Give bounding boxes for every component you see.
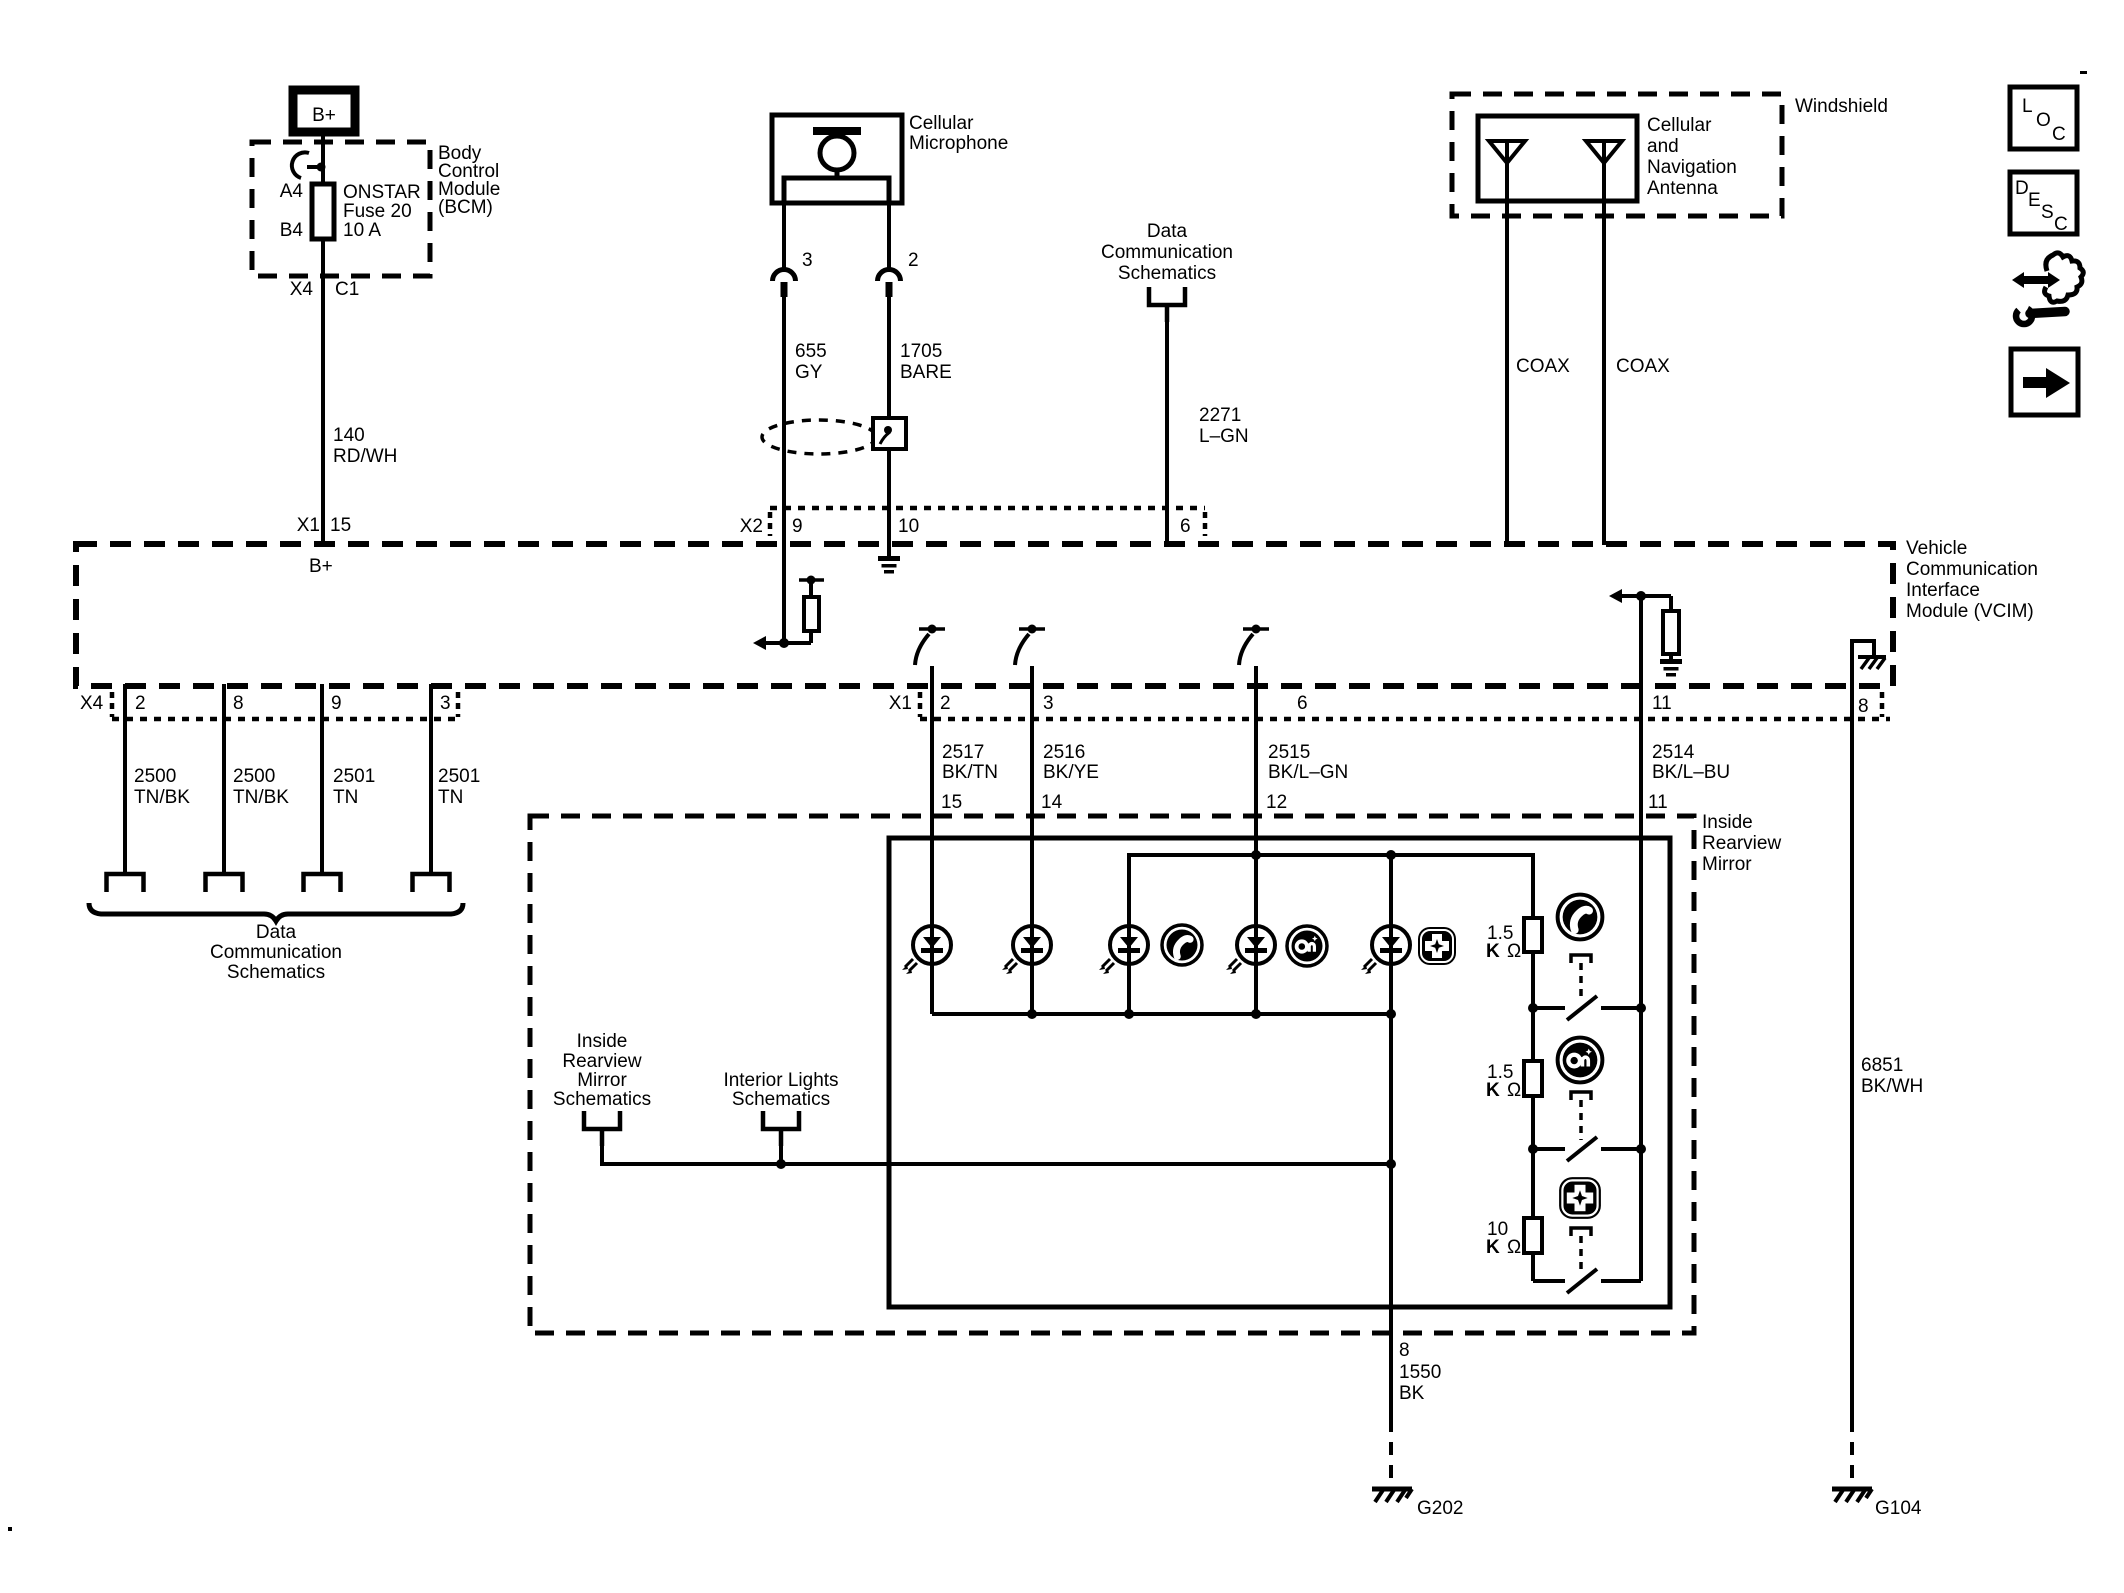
svg-text:Cellular: Cellular [1647,115,1712,136]
mirror internal solid box [889,838,1670,1307]
LED D5 emergency indicator [1361,926,1410,974]
svg-text:2517: 2517 [942,742,984,763]
svg-text:C: C [2054,214,2068,235]
bracket to data schematics [1149,287,1185,322]
wire 655 GY [782,296,786,643]
BCM label [438,143,500,218]
svg-text:D: D [2015,178,2029,199]
svg-text:S: S [2041,202,2054,223]
svg-text:K: K [1486,941,1500,962]
svg-text:655: 655 [795,341,827,362]
stray marks [2080,71,2087,74]
resistor R3 10K [1524,1218,1542,1253]
svg-text:L: L [2022,96,2033,117]
ground G104 [1832,1489,1872,1502]
svg-text:8: 8 [233,693,244,714]
svg-text:Navigation: Navigation [1647,157,1737,178]
svg-text:Interior Lights: Interior Lights [723,1070,838,1091]
fuse ONSTAR Fuse 20 10 A [280,181,421,241]
svg-text:and: and [1647,136,1679,157]
svg-text:2516: 2516 [1043,742,1085,763]
LED D2 (pin 14 circuit) [1002,926,1051,974]
wire interior lights stub [779,1146,783,1164]
wire 2271 L-GN [1165,305,1169,545]
svg-text:Ω: Ω [1507,1080,1521,1101]
svg-text:Schematics: Schematics [732,1089,830,1110]
wire COAX right [1602,141,1606,545]
svg-text:14: 14 [1041,792,1063,813]
svg-text:8: 8 [1858,696,1869,717]
node B+ battery feed box [293,90,355,132]
svg-text:GY: GY [795,362,823,383]
svg-text:Module (VCIM): Module (VCIM) [1906,601,2034,622]
junction dot cathode bus / LED D3 [1124,1009,1134,1019]
svg-text:Cellular: Cellular [909,113,974,134]
svg-text:6851: 6851 [1861,1055,1903,1076]
svg-text:Vehicle: Vehicle [1906,538,1967,559]
junction dot anode bus / LED D4 [1251,850,1261,860]
wire schematics refs to mirror ground [602,1146,1391,1164]
svg-text:COAX: COAX [1616,356,1670,377]
svg-text:L–GN: L–GN [1199,426,1249,447]
svg-text:140: 140 [333,425,365,446]
svg-text:COAX: COAX [1516,356,1570,377]
svg-text:2271: 2271 [1199,405,1241,426]
svg-text:Schematics: Schematics [227,962,325,983]
wire top rail (anode bus) [1129,855,1533,1014]
wire 2501 TN pin3 [429,684,433,874]
svg-text:K: K [1486,1080,1500,1101]
connector clip A4 inside BCM [292,152,326,178]
wire B+ to BCM [321,132,325,184]
svg-text:10: 10 [898,516,919,537]
svg-text:BK/L–BU: BK/L–BU [1652,762,1730,783]
pin 2 terminal [878,270,901,298]
wire shield to ground [887,449,891,556]
junction dot cathode bus / LED D2 [1027,1009,1037,1019]
mech link 3 [1571,1228,1591,1236]
svg-text:Inside: Inside [577,1031,628,1052]
svg-text:G104: G104 [1875,1498,1922,1519]
svg-text:Fuse 20: Fuse 20 [343,201,412,222]
VCIM internal: switch pin 3 [1015,625,1045,666]
svg-text:X2: X2 [740,516,763,537]
svg-text:BK/WH: BK/WH [1861,1076,1923,1097]
icon On (LED row) [1287,926,1327,966]
svg-text:O: O [2036,110,2051,131]
icon phone (button column) [1558,895,1603,940]
wire 2517 BK/TN [930,666,934,1014]
icon cross (button column) [1559,1177,1601,1219]
vehicle/wrench glyph [2011,253,2083,324]
mech link 2 [1571,1092,1591,1100]
svg-text:Windshield: Windshield [1795,96,1888,117]
svg-text:2: 2 [135,693,146,714]
svg-text:Communication: Communication [1101,242,1233,263]
svg-text:BARE: BARE [900,362,952,383]
svg-text:1550: 1550 [1399,1362,1441,1383]
VCIM internal: coax terminator resistor to ground [1609,589,1682,677]
junction dot cathode bus / wire 1550 [1386,1009,1396,1019]
svg-text:X1: X1 [297,515,320,536]
svg-text:12: 12 [1266,792,1287,813]
wire 2500 TN/BK pin2 [123,684,127,874]
svg-text:2: 2 [940,693,951,714]
svg-text:Inside: Inside [1702,812,1753,833]
svg-text:TN/BK: TN/BK [233,787,289,808]
svg-text:Ω: Ω [1507,941,1521,962]
antenna 2 [1586,141,1622,163]
junction dot cathode bus / LED D4 [1251,1009,1261,1019]
switch row 3 [1533,1269,1641,1293]
wire 6851 BK/WH [1850,686,1854,1419]
svg-text:3: 3 [1043,693,1054,714]
mirror dashed box [530,816,1694,1333]
svg-text:2515: 2515 [1268,742,1310,763]
VCIM internal: chassis ground for pin 8 [1852,641,1886,686]
svg-text:X4: X4 [290,279,314,300]
svg-text:C: C [2052,124,2066,145]
LOC icon box [2010,87,2077,149]
wire 2500 TN/BK pin8 [222,684,226,874]
svg-text:TN: TN [333,787,358,808]
svg-text:15: 15 [330,515,351,536]
switch row 2 [1528,1137,1646,1161]
shield drain box [873,418,906,449]
svg-text:15: 15 [941,792,962,813]
svg-text:K: K [1486,1237,1500,1258]
ground G202 [1372,1489,1412,1502]
svg-text:2514: 2514 [1652,742,1695,763]
svg-text:A4: A4 [280,181,304,202]
LED D1 (pin 15 circuit) [902,926,951,974]
svg-text:6: 6 [1297,693,1308,714]
svg-text:6: 6 [1180,516,1191,537]
windshield dashed box [1452,94,1782,216]
svg-text:Microphone: Microphone [909,133,1008,154]
icon cross (LED row) [1418,927,1456,965]
svg-text:1705: 1705 [900,341,942,362]
svg-text:Rearview: Rearview [1702,833,1781,854]
svg-text:Ω: Ω [1507,1237,1521,1258]
switch row 1 [1528,996,1646,1020]
svg-text:10 A: 10 A [343,220,381,241]
LED4 anode wire [1254,855,1258,1014]
svg-text:2: 2 [908,250,919,271]
svg-text:BK/YE: BK/YE [1043,762,1099,783]
shield ellipse [762,420,876,454]
svg-text:Interface: Interface [1906,580,1980,601]
svg-text:Mirror: Mirror [1702,854,1752,875]
Body Control Module (BCM) dashed box [252,142,430,276]
LED D3 phone indicator [1099,926,1148,974]
svg-text:B+: B+ [309,556,333,577]
wire 2514 BK/L-BU [1639,596,1643,1281]
svg-text:2501: 2501 [333,766,375,787]
svg-text:B4: B4 [280,220,304,241]
svg-text:Schematics: Schematics [553,1089,651,1110]
svg-text:2500: 2500 [134,766,176,787]
component Cellular and Navigation Antenna box [1478,115,1737,201]
svg-text:11: 11 [1652,693,1672,714]
data communication schematics label [210,922,342,983]
wire bottom rail (cathode bus) [932,1012,1391,1016]
svg-text:BK/TN: BK/TN [942,762,998,783]
svg-text:X4: X4 [80,693,104,714]
antenna 1 [1489,141,1525,163]
wire mic pin3 to box [782,203,786,270]
svg-text:E: E [2028,190,2041,211]
wire 1705 BARE [887,296,891,418]
svg-text:Communication: Communication [1906,559,2038,580]
svg-text:RD/WH: RD/WH [333,446,397,467]
svg-text:BK: BK [1399,1383,1425,1404]
LED5 cathode / 1550 BK wire [1389,855,1393,1419]
junction dot at wire 1550 [1386,1159,1396,1169]
connector X1 dotted row [920,717,1890,722]
wire 2501 TN pin9 [320,684,324,874]
schematic reference labels left [553,1031,651,1110]
pin 3 terminal [773,270,796,298]
mech link 1 [1571,955,1591,963]
svg-text:2501: 2501 [438,766,480,787]
svg-text:Communication: Communication [210,942,342,963]
svg-text:Antenna: Antenna [1647,178,1718,199]
wire 2515 BK/L-GN [1254,666,1258,855]
connector X4 dotted row [112,717,458,722]
icon On (button column) [1558,1038,1603,1083]
junction dot interior lights stub [776,1159,786,1169]
resistor R2 1.5K [1524,1061,1542,1096]
svg-text:ONSTAR: ONSTAR [343,182,421,203]
svg-text:11: 11 [1648,792,1668,813]
wire COAX left [1505,141,1509,545]
svg-text:(BCM): (BCM) [438,197,493,218]
svg-text:BK/L–GN: BK/L–GN [1268,762,1348,783]
svg-text:3: 3 [440,693,451,714]
VCIM internal: mic input resistor assembly [753,576,824,651]
svg-text:C1: C1 [335,279,359,300]
svg-text:2500: 2500 [233,766,275,787]
svg-text:Schematics: Schematics [1118,263,1216,284]
module Vehicle Communication Interface Module (VCIM) [76,544,1893,686]
svg-text:B+: B+ [312,105,336,126]
VCIM internal: switch pin 2 [915,625,945,666]
svg-text:8: 8 [1399,1340,1410,1361]
svg-text:Data: Data [256,922,297,943]
next arrow icon box [2011,349,2078,415]
svg-text:X1: X1 [889,693,912,714]
svg-text:TN: TN [438,787,463,808]
resistor R1 1.5K [1524,918,1542,952]
svg-text:G202: G202 [1417,1498,1463,1519]
wire 2516 BK/YE [1030,666,1034,1014]
svg-text:Rearview: Rearview [562,1051,641,1072]
icon phone (LED row) [1162,925,1202,965]
wire fuse to VCIM pin X1-15 [321,239,325,545]
junction dot anode bus / LED D5 [1386,850,1396,860]
DESC icon box [2010,172,2077,235]
svg-text:3: 3 [802,250,813,271]
svg-text:Data: Data [1147,221,1188,242]
component Cellular Microphone box [772,113,1008,203]
brace [89,903,463,921]
connector X2 dotted row [770,506,1205,511]
svg-text:TN/BK: TN/BK [134,787,190,808]
svg-text:9: 9 [792,516,803,537]
VCIM internal: switch pin 6 [1239,625,1269,666]
LED D4 On indicator [1226,926,1275,974]
ground earth for shield [878,556,900,574]
svg-text:9: 9 [331,693,342,714]
svg-text:Mirror: Mirror [577,1070,627,1091]
